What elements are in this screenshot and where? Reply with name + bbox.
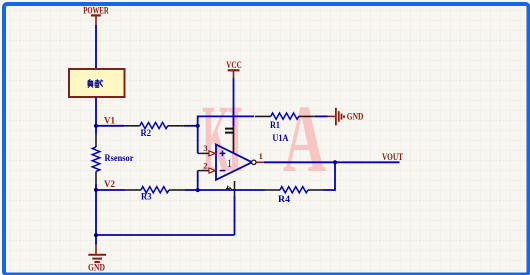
wire minus-node to R4 [198,189,265,191]
load box (负载) [69,69,125,97]
svg-text:3: 3 [203,143,207,153]
junction dot bottom-left [94,233,98,237]
power port POWER [83,6,109,25]
resistor R1 [255,113,315,119]
svg-text:R4: R4 [278,195,290,205]
svg-text:R2: R2 [141,129,152,139]
wire V2 to R3 [96,189,125,191]
pin 3 [198,143,216,156]
pin 2 [198,160,216,190]
wire plus-node up and right to R1 [198,116,254,153]
svg-text:I: I [227,85,243,192]
junction dot minus-node [196,188,200,192]
junction dot V2 [94,188,98,192]
svg-text:A: A [283,85,326,192]
wire feedback down from output [324,162,336,190]
resistor R3 [125,187,185,193]
svg-text:1: 1 [259,151,263,161]
wire R2 to + node [184,125,198,127]
resistor R2 [124,122,184,128]
ground symbol GND (right, bar style) [328,108,345,126]
ground symbol GND (bottom) [88,245,106,263]
svg-text:4: 4 [224,186,233,190]
svg-text:GND: GND [347,113,364,123]
svg-text:U1A: U1A [272,134,288,144]
svg-text:VOUT: VOUT [382,153,404,163]
负 glyph [88,79,94,87]
op-amp pin 4 (power) [234,181,236,196]
wire R1 to GND bar [315,115,328,117]
resistor Rsensor (vertical) [92,134,134,185]
junction dot plus-node [196,124,200,128]
svg-text:Rsensor: Rsensor [105,154,135,164]
power port VCC [226,61,242,78]
KIA watermark [202,85,326,192]
svg-text:R1: R1 [270,121,280,131]
wire R3 to minus-node [185,189,198,191]
op-amp pin 8 (power) [233,126,235,153]
junction dot V1 [94,124,98,128]
wire VCC down [233,78,235,126]
wire load box to V1 [95,97,97,134]
pin 1 output [252,151,264,165]
svg-text:R3: R3 [141,193,152,203]
wire V1 to R2 [96,125,124,127]
svg-text:1: 1 [227,156,232,170]
载 glyph [95,79,103,87]
bottom rail wire [96,234,235,236]
wire POWER to load box [95,25,97,69]
svg-text:2: 2 [203,160,207,170]
op-amp U1A [216,134,289,180]
resistor R4 [264,187,324,193]
junction dot output [333,160,337,164]
svg-text:V2: V2 [104,180,115,190]
svg-text:GND: GND [88,263,105,273]
wire output to VOUT [264,161,400,163]
wire Rsensor to V2 and down to bottom rail [95,184,97,245]
